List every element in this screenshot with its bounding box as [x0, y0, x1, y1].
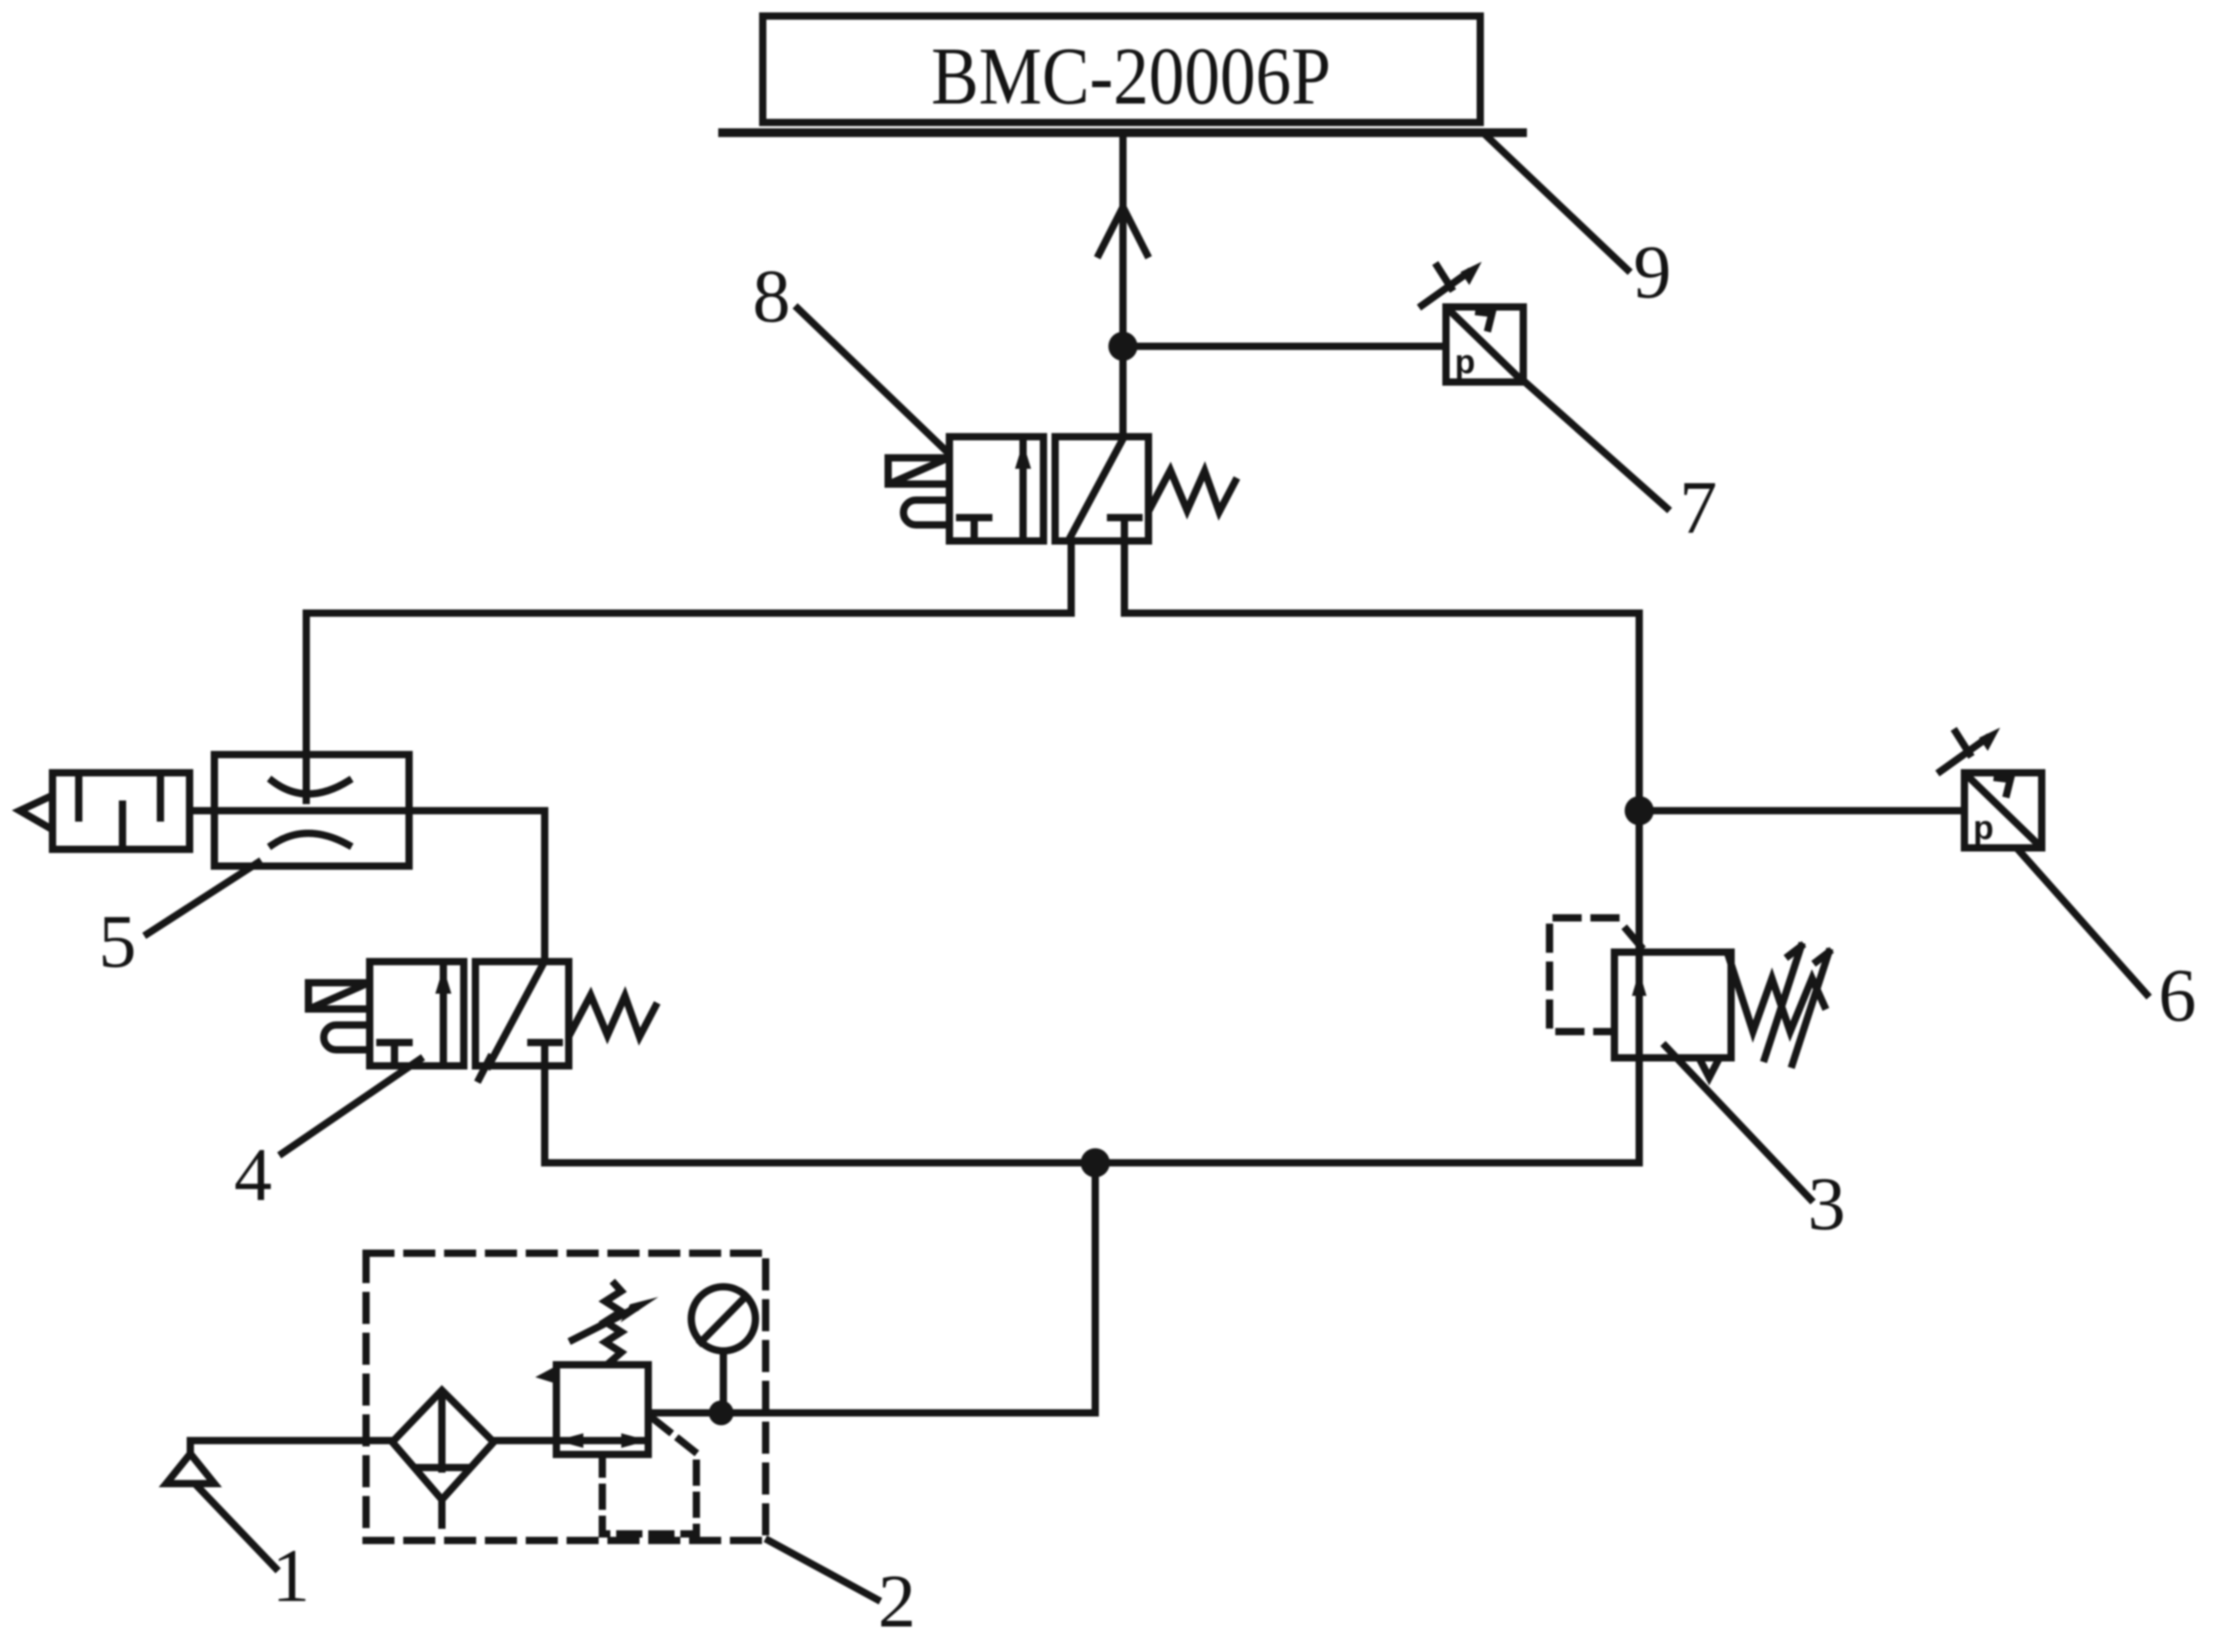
wire valve8 right port down to right rail — [1124, 541, 1639, 1163]
valve 4 exhaust diagonal overshoot — [479, 1058, 490, 1079]
bottom rail wire — [545, 1159, 1639, 1166]
pressure switch 7 — [1422, 262, 1523, 382]
air source 1 — [166, 1454, 214, 1484]
pilot dashed line of valve 3 — [1550, 918, 1641, 1032]
node at pressure switch branch — [1108, 332, 1138, 361]
solenoid valve 4 — [308, 962, 656, 1066]
svg-text:2: 2 — [878, 1559, 916, 1643]
wire to pressure switch 7 — [1123, 343, 1446, 350]
flow arrow — [1099, 207, 1147, 254]
leader line 3 — [1665, 1046, 1811, 1199]
regulator pilot dashed line — [599, 1454, 606, 1473]
controller box BMC-20006P — [763, 16, 1480, 122]
svg-text:6: 6 — [2158, 954, 2196, 1037]
leader line 6 — [2020, 852, 2147, 994]
svg-text:7: 7 — [1679, 466, 1717, 550]
leader line 1 — [198, 1487, 276, 1568]
leader line 2 — [769, 1540, 877, 1600]
leader line 4 — [282, 1059, 420, 1153]
solenoid valve 8 — [888, 437, 1235, 541]
svg-text:4: 4 — [234, 1133, 272, 1217]
wire valve8 left port down to left rail — [306, 541, 1071, 755]
svg-text:3: 3 — [1808, 1162, 1846, 1246]
wire ejector to valve 4 — [409, 811, 545, 962]
node at gauge tap — [709, 1400, 734, 1425]
pressure regulator — [535, 1284, 658, 1454]
node on bottom rail — [1081, 1148, 1110, 1177]
relief valve 3 — [1614, 946, 1829, 1078]
wire filter to regulator — [494, 1437, 556, 1444]
pressure switch 6 — [1940, 728, 2042, 848]
wire to pressure switch 6 — [1639, 807, 1964, 814]
leader line 8 — [798, 308, 946, 451]
leader line 5 — [147, 862, 258, 934]
wire valve4 bottom port to bottom rail — [541, 1058, 548, 1163]
leader line 9 — [1485, 134, 1628, 270]
svg-text:8: 8 — [753, 254, 790, 338]
pressure gauge — [691, 1287, 755, 1413]
svg-text:5: 5 — [98, 900, 136, 983]
air inlet wire — [190, 1441, 392, 1454]
wire from controller to valve 8 — [1119, 133, 1127, 437]
svg-text:1: 1 — [272, 1534, 310, 1618]
svg-text:9: 9 — [1633, 230, 1671, 314]
silencer — [20, 773, 190, 849]
vacuum ejector 5 — [190, 755, 409, 866]
leader line 7 — [1523, 381, 1667, 508]
svg-text:p: p — [1455, 343, 1475, 381]
filter — [392, 1390, 494, 1525]
svg-text:p: p — [1973, 809, 1994, 846]
node at pressure switch 6 branch — [1625, 796, 1654, 825]
svg-text:BMC-20006P: BMC-20006P — [931, 31, 1331, 122]
wire from air unit to bottom rail — [648, 1163, 1095, 1413]
controller base line — [723, 128, 1523, 137]
air service unit 2 dashed enclosure — [366, 1253, 766, 1540]
